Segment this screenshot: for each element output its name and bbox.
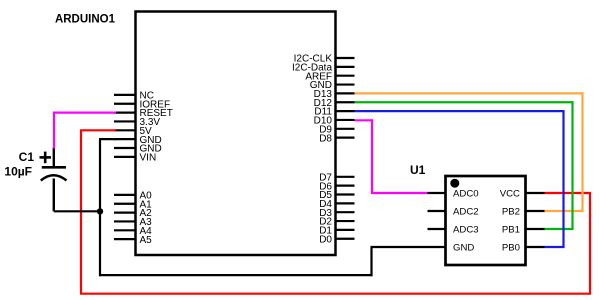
label U1 (410, 163, 426, 177)
IC U1 body (446, 176, 526, 265)
pin D9 (ARDUINO1 right) (319, 124, 354, 135)
pin D13 (ARDUINO1 right) (314, 89, 355, 100)
svg-text:ADC3: ADC3 (453, 225, 479, 236)
pin PB2 (U1 right) (502, 207, 545, 218)
wire D13 to PB2 (orange) to PB2 pin (545, 210, 584, 212)
wire D11 to PB0 (blue) vertical (562, 110, 564, 248)
pin I2C-Data (ARDUINO1 right) (292, 62, 355, 73)
pin D5 (ARDUINO1 right) (319, 190, 354, 201)
wire GND net right vertical (370, 247, 372, 276)
wire D12 to PB1 (green) horizontal (355, 101, 574, 103)
pin D1 (ARDUINO1 right) (319, 226, 354, 237)
pin 5V (ARDUINO1 left) (114, 126, 152, 137)
pin AREF (ARDUINO1 right) (305, 71, 354, 82)
IC ARDUINO1 body (136, 12, 336, 256)
pin NC (ARDUINO1 left) (114, 91, 154, 102)
svg-text:D8: D8 (319, 133, 332, 144)
wire 5V net (red) to VCC pin (545, 192, 592, 194)
wire D10 to ADC0 (magenta) horizontal to ADC0 (371, 192, 429, 194)
wire GND net bottom horizontal (99, 274, 373, 276)
svg-text:ARDUINO1: ARDUINO1 (55, 14, 116, 26)
wire GND net horizontal from GND pin (99, 138, 116, 140)
pin A4 (ARDUINO1 left) (114, 226, 152, 237)
capacitor C1 bottom lead (53, 179, 55, 212)
pin A5 (ARDUINO1 left) (114, 235, 152, 246)
pin GND (ARDUINO1 left) (114, 135, 162, 146)
svg-text:U1: U1 (410, 163, 426, 177)
pin IOREF (ARDUINO1 left) (114, 99, 170, 110)
pin D2 (ARDUINO1 right) (319, 217, 354, 228)
junction dot at GND net (97, 208, 103, 214)
svg-text:GND: GND (453, 243, 474, 254)
pin D3 (ARDUINO1 right) (319, 208, 354, 219)
pin D11 (ARDUINO1 right) (314, 107, 354, 118)
pin A1 (ARDUINO1 left) (114, 199, 152, 210)
pin PB0 (U1 right) (502, 243, 545, 254)
svg-text:D0: D0 (319, 234, 332, 245)
wire D11 to PB0 (blue) horizontal (355, 110, 565, 112)
wire RESET to C1 (magenta) vertical (53, 112, 55, 149)
label C1 (19, 150, 35, 164)
svg-text:PB2: PB2 (502, 207, 520, 218)
svg-text:VIN: VIN (140, 152, 157, 163)
wire D13 to PB2 (orange) horizontal (355, 92, 584, 94)
U1 pin 1 marker dot (450, 179, 459, 188)
pin RESET (ARDUINO1 left) (114, 108, 173, 119)
label ARDUINO1 (55, 14, 116, 26)
wire GND net to U1 GND pin (371, 246, 428, 248)
pin D7 (ARDUINO1 right) (319, 172, 354, 183)
wire 5V net (red) horizontal from 5V pin (80, 129, 116, 131)
capacitor C1 polarity plus sign (40, 152, 52, 164)
pin A3 (ARDUINO1 left) (114, 217, 152, 228)
svg-text:ADC2: ADC2 (453, 207, 479, 218)
pin ADC2 (U1 left) (428, 207, 479, 218)
pin I2C-CLK (ARDUINO1 right) (294, 54, 355, 65)
svg-text:C1: C1 (19, 150, 35, 164)
wire RESET to C1 (magenta) horizontal (53, 111, 116, 113)
svg-text:10µF: 10µF (4, 165, 32, 179)
svg-text:VCC: VCC (500, 189, 520, 200)
wire 5V net (red) bottom horizontal (80, 293, 591, 295)
wire 5V net (red) left vertical (80, 130, 82, 293)
pin D10 (ARDUINO1 right) (314, 116, 355, 127)
wire 5V net (red) right vertical (589, 193, 591, 294)
capacitor C1 curved bottom plate (41, 175, 67, 180)
value label 10µF (4, 165, 32, 179)
wire D12 to PB1 (green) vertical (571, 101, 573, 230)
pin A0 (ARDUINO1 left) (114, 191, 152, 202)
pin D6 (ARDUINO1 right) (319, 181, 354, 192)
svg-text:PB0: PB0 (502, 243, 520, 254)
pin GND (ARDUINO1 right) (310, 80, 355, 91)
pin GND (U1 left) (428, 243, 475, 254)
svg-text:ADC0: ADC0 (453, 189, 479, 200)
pin PB1 (U1 right) (502, 225, 545, 236)
pin D12 (ARDUINO1 right) (314, 98, 355, 109)
pin D0 (ARDUINO1 right) (319, 234, 354, 245)
wire D13 to PB2 (orange) vertical (581, 92, 583, 212)
pin GND (ARDUINO1 left) (114, 144, 162, 155)
pin ADC0 (U1 left) (428, 189, 479, 200)
wire D11 to PB0 (blue) to PB0 pin (545, 246, 565, 248)
wire D10 to ADC0 (magenta) vertical (371, 119, 373, 194)
pin VIN (ARDUINO1 left) (114, 152, 156, 163)
pin D4 (ARDUINO1 right) (319, 199, 354, 210)
capacitor C1 top plate (42, 166, 66, 169)
wire GND net left vertical (99, 139, 101, 276)
pin VCC (U1 right) (500, 189, 545, 200)
capacitor C1 top lead (53, 148, 55, 168)
svg-text:PB1: PB1 (502, 225, 520, 236)
wire C1 bottom to GND net (54, 210, 101, 212)
pin A2 (ARDUINO1 left) (114, 208, 152, 219)
pin D8 (ARDUINO1 right) (319, 133, 354, 144)
svg-text:A5: A5 (140, 235, 153, 246)
wire D12 to PB1 (green) to PB1 pin (545, 228, 574, 230)
pin ADC3 (U1 left) (428, 225, 479, 236)
pin 3.3V (ARDUINO1 left) (114, 117, 160, 128)
wire D10 to ADC0 (magenta) horizontal from D10 (355, 119, 374, 121)
